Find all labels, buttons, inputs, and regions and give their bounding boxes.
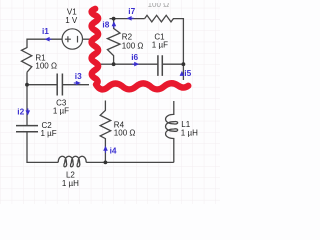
resistor R1: [22, 48, 32, 73]
svg-text:1 µF: 1 µF: [152, 41, 168, 50]
voltage source V1: [62, 29, 82, 49]
svg-text:i8: i8: [102, 19, 109, 29]
svg-text:R2: R2: [122, 33, 133, 42]
capacitor C1: [158, 55, 162, 76]
svg-text:i3: i3: [75, 71, 82, 81]
wire: C3 right toward red-marked area: [62, 84, 89, 86]
current arrow i8 (up): [112, 21, 117, 26]
current arrow i7 (left): [127, 16, 132, 21]
current arrow i2 (down): [26, 110, 31, 115]
wire: C2 to bottom-left corner: [27, 132, 58, 163]
wire: R1 bottom to C2: [26, 72, 28, 125]
wire: R2 bottom node horizontal (emerges from marker): [100, 63, 114, 65]
svg-text:1 µH: 1 µH: [62, 179, 79, 188]
svg-text:i2: i2: [17, 106, 24, 116]
current arrow i5 (up): [180, 71, 185, 76]
svg-text:100 Ω: 100 Ω: [114, 129, 136, 138]
current arrow i4 (up): [103, 146, 108, 151]
wire: bottom rail from L2 to bottom-right corner: [86, 161, 174, 163]
node: R2 bottom / C1 left: [112, 62, 116, 66]
wire: mid bus from left rail to C3: [27, 84, 57, 86]
current arrow i3 (right): [76, 81, 81, 86]
svg-text:i1: i1: [42, 26, 49, 36]
resistor R2: [107, 19, 120, 65]
svg-text:1 µH: 1 µH: [181, 128, 198, 137]
svg-text:100 Ω: 100 Ω: [35, 62, 57, 71]
current arrow i6 (right): [134, 62, 139, 67]
svg-text:i7: i7: [128, 6, 135, 16]
svg-text:100 Ω: 100 Ω: [122, 42, 144, 51]
wire: top-right corner down to C1 node: [173, 19, 183, 80]
svg-text:i5: i5: [184, 68, 191, 78]
node: C1 right / right rail: [182, 62, 186, 66]
svg-text:1 V: 1 V: [65, 16, 78, 25]
svg-text:i6: i6: [131, 52, 138, 62]
inductor L2: [58, 156, 86, 167]
wire: C1 node to C1 right plate: [162, 63, 183, 65]
node: R4 bottom / bottom rail: [104, 161, 108, 165]
capacitor C3: [57, 74, 62, 96]
wire: top rail stub left of node: [110, 18, 145, 20]
svg-text:i4: i4: [110, 145, 117, 155]
wire: V1 right terminal stub: [82, 38, 91, 40]
resistor R4: [100, 101, 111, 163]
node: R1 bottom / bus junction: [25, 83, 29, 87]
resistor R3: [145, 15, 174, 22]
capacitor C2: [16, 126, 38, 132]
inductor L1: [166, 101, 178, 162]
wire top-left: V1 left terminal to left rail: [27, 39, 63, 48]
node: top rail / R2 top: [112, 17, 116, 21]
svg-text:1 µF: 1 µF: [53, 106, 69, 115]
current arrow i1 (left): [45, 37, 50, 42]
svg-text:1 µF: 1 µF: [41, 129, 57, 138]
red marker highlight (vertical squiggle then horizontal): [91, 9, 188, 90]
wire: C1 left plate to R2 bottom node: [114, 63, 158, 65]
